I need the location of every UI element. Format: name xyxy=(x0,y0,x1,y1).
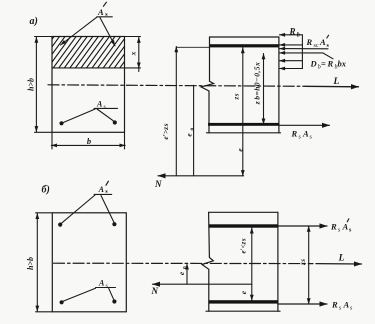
svg-text:R: R xyxy=(289,27,296,37)
label As (section a) with leaders xyxy=(63,100,118,123)
svg-text:e′<z s: e′<z s xyxy=(239,238,247,253)
top edge extension (section b) xyxy=(36,212,53,214)
label L (diagram a) xyxy=(333,77,340,87)
dimension e0 (diagram b) xyxy=(186,264,188,284)
label zb=h0-0,5x xyxy=(253,62,262,106)
force line N (diagram a) xyxy=(158,175,244,177)
dimension b (section a) xyxy=(51,132,125,149)
svg-text:s: s xyxy=(338,228,341,234)
top edge extensions xyxy=(35,36,53,38)
rebar dots As (section b) xyxy=(60,299,117,304)
svg-text:x: x xyxy=(128,51,137,56)
svg-text:=: = xyxy=(321,59,326,69)
dimension e' (diagram a) xyxy=(175,47,177,176)
label e'<zs (diagram b) xyxy=(239,238,247,253)
svg-text:s: s xyxy=(349,228,352,234)
beam element outline (diagram a) with break xyxy=(201,37,214,133)
label e'>zs xyxy=(161,123,170,139)
leader to Db label xyxy=(323,53,333,59)
dimension e' / e line (diagram b) xyxy=(251,228,253,301)
svg-text:A: A xyxy=(97,7,104,17)
svg-text:б): б) xyxy=(42,185,50,196)
force line N (diagram b) xyxy=(153,283,252,285)
label Rb xyxy=(289,27,301,39)
beam element outline (diagram b) with break xyxy=(202,212,213,311)
svg-text:R: R xyxy=(327,59,334,69)
svg-text:A: A xyxy=(96,100,103,109)
force arrow Rs A's (diagram b) xyxy=(278,225,327,227)
svg-text:h>b: h>b xyxy=(27,78,36,91)
section a outline xyxy=(52,37,125,133)
centre axis L (diagram b) xyxy=(54,262,314,264)
dimension zs / e line (diagram a) xyxy=(242,48,244,176)
svg-text:0: 0 xyxy=(190,128,196,131)
svg-text:A: A xyxy=(343,300,350,310)
compressive stress block arrows Rb (diagram a) xyxy=(279,35,322,69)
label N (diagram b) xyxy=(151,286,159,296)
dimension e0 (diagram a) xyxy=(193,85,195,176)
label A's (section a) with arrow leaders xyxy=(61,2,116,46)
svg-text:R: R xyxy=(330,222,337,232)
svg-text:L: L xyxy=(333,77,340,87)
label L (diagram b) xyxy=(338,254,345,264)
svg-text:s: s xyxy=(310,135,313,141)
label Rs As (diagram a) xyxy=(291,129,313,141)
svg-text:A: A xyxy=(98,279,105,288)
force arrow Rsc A's (diagram a) xyxy=(279,48,328,50)
svg-text:s: s xyxy=(104,105,107,111)
svg-text:bx: bx xyxy=(338,59,347,69)
top reinforcement bar A's (diagram b) xyxy=(209,224,278,227)
label e (diagram b) xyxy=(239,290,248,294)
top reinforcement bar A's (diagram a) xyxy=(210,44,279,47)
svg-text:sc: sc xyxy=(314,43,319,49)
bottom edge extension (section b) xyxy=(36,311,53,313)
svg-text:s: s xyxy=(339,306,342,312)
label b) xyxy=(42,185,50,196)
svg-text:D: D xyxy=(310,59,317,69)
bottom reinforcement bar As (diagram a) xyxy=(208,123,280,126)
label a) xyxy=(30,16,38,27)
label e0 (diagram b) xyxy=(177,266,188,275)
svg-text:z b=h0−0,5x: z b=h0−0,5x xyxy=(253,62,262,106)
svg-text:h>b: h>b xyxy=(26,257,35,270)
svg-text:z s: z s xyxy=(232,93,240,100)
svg-text:e: e xyxy=(185,133,194,137)
label zs (diagram a) xyxy=(232,93,240,100)
svg-text:z s: z s xyxy=(299,259,307,266)
dimension h>b (section a) xyxy=(27,37,37,132)
label N (diagram a) xyxy=(154,179,162,189)
svg-text:R: R xyxy=(306,37,313,47)
rebar dots As (section a) xyxy=(59,120,117,125)
hatch bottom line xyxy=(52,67,141,69)
svg-text:e: e xyxy=(239,290,248,294)
centre axis L (diagram a) xyxy=(48,85,305,87)
svg-text:L: L xyxy=(338,254,345,264)
svg-text:s: s xyxy=(106,284,109,290)
svg-text:A: A xyxy=(319,37,326,47)
svg-text:0: 0 xyxy=(182,266,188,269)
svg-text:b: b xyxy=(87,136,91,146)
section b outline xyxy=(52,213,126,312)
force arrow Rs As (diagram b) xyxy=(278,303,327,305)
bottom edge extension xyxy=(35,131,53,133)
svg-text:N: N xyxy=(154,179,162,189)
force arrow Rs As (diagram a) xyxy=(279,124,330,126)
rebar dots A's (section b) xyxy=(58,222,116,227)
svg-text:R: R xyxy=(331,300,338,310)
label As (section b) with leaders xyxy=(63,279,116,302)
svg-text:e′>z s: e′>z s xyxy=(161,123,170,139)
svg-text:s: s xyxy=(299,135,302,141)
bottom reinforcement bar As (diagram b) xyxy=(209,300,278,303)
dimension zs (diagram b) xyxy=(308,226,310,304)
label zs (diagram b) xyxy=(299,259,307,266)
extension line at A's level (diagram a) xyxy=(176,46,209,48)
label e0 (diagram a) xyxy=(185,128,196,137)
svg-text:A: A xyxy=(98,185,105,194)
svg-text:A: A xyxy=(342,222,349,232)
svg-text:N: N xyxy=(151,286,159,296)
svg-text:s: s xyxy=(350,306,353,312)
svg-text:R: R xyxy=(291,129,298,139)
label A's (section b) with leaders xyxy=(62,181,115,223)
svg-text:s: s xyxy=(327,43,330,49)
label Rs As (diagram b) xyxy=(331,300,353,312)
svg-text:e: e xyxy=(177,271,186,275)
label Rs A's (diagram b) xyxy=(330,222,352,234)
svg-text:A: A xyxy=(302,129,309,139)
hatched compression zone x xyxy=(24,35,149,70)
dimension x (section a) xyxy=(128,37,139,71)
label Rsc A's xyxy=(306,37,330,49)
dimension h>b (section b) xyxy=(26,213,37,311)
label e (diagram a) xyxy=(235,148,244,152)
label Db=Rbbx xyxy=(310,59,347,71)
dimension zb=h0-0.5x (diagram a) xyxy=(263,54,265,125)
svg-text:a): a) xyxy=(30,16,38,27)
